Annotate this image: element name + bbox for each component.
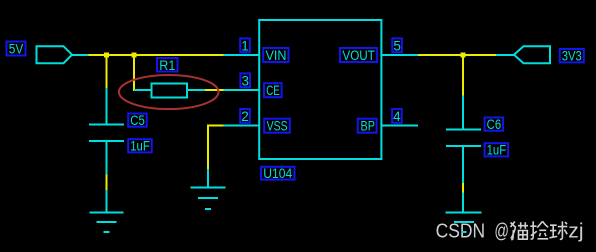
svg-text:4: 4 [393,109,401,124]
svg-text:U104: U104 [263,166,292,181]
port 5V [7,42,90,64]
pin 5 VOUT [340,38,418,63]
svg-text:VOUT: VOUT [342,48,375,63]
svg-text:2: 2 [241,109,249,124]
svg-text:5V: 5V [9,42,24,57]
svg-text:C6: C6 [487,117,502,132]
wire 5V to pin VIN [89,54,224,56]
wire VOUT to 3V3 [418,54,496,56]
watermark CJK glyphs (hand-drawn) [511,221,568,239]
svg-text:1uF: 1uF [130,139,150,154]
svg-text:C5: C5 [130,113,145,128]
junction B [132,53,137,58]
pin 2 VSS [224,109,290,134]
svg-text:zj: zj [568,220,583,242]
svg-text:3V3: 3V3 [562,49,582,64]
svg-text:1uF: 1uF [487,143,507,158]
svg-text:CE: CE [266,83,280,98]
svg-text:CSDN: CSDN [436,220,486,242]
wire junction B down to R1 [133,55,135,91]
watermark glyph jian [530,221,548,239]
svg-text:VSS: VSS [267,119,288,134]
svg-text:R1: R1 [159,58,175,73]
resistor R1 [134,58,205,98]
port 3V3 [496,46,584,63]
pin 4 BP [358,109,418,134]
junction C [461,53,466,58]
ground G1 [90,190,124,232]
wire C6 to ground [462,183,464,193]
watermark glyph qiu [550,221,568,239]
watermark glyph mao [511,222,529,240]
capacitor C6 [446,96,508,184]
svg-text:1: 1 [241,39,249,54]
ground G2 [191,169,226,209]
svg-text:5: 5 [393,39,401,54]
svg-text:@: @ [494,220,509,242]
pin 1 VIN [224,38,289,63]
svg-text:BP: BP [361,119,376,134]
wire C5 to ground [106,175,108,191]
wire junction A down to C5 [106,55,108,89]
wire junction C down to C6 [462,55,464,96]
junction A [104,53,109,58]
watermark CSDN @ [436,220,509,242]
wire VSS to ground [208,126,224,170]
wire R1 to pin CE [205,89,224,91]
ground G3 [446,193,482,233]
svg-text:VIN: VIN [266,48,287,63]
capacitor C5 [89,88,152,175]
svg-text:3: 3 [241,74,249,89]
annotation red ellipse around R1 [119,75,219,109]
IC U104 [259,20,381,181]
pin 3 CE [224,73,282,98]
